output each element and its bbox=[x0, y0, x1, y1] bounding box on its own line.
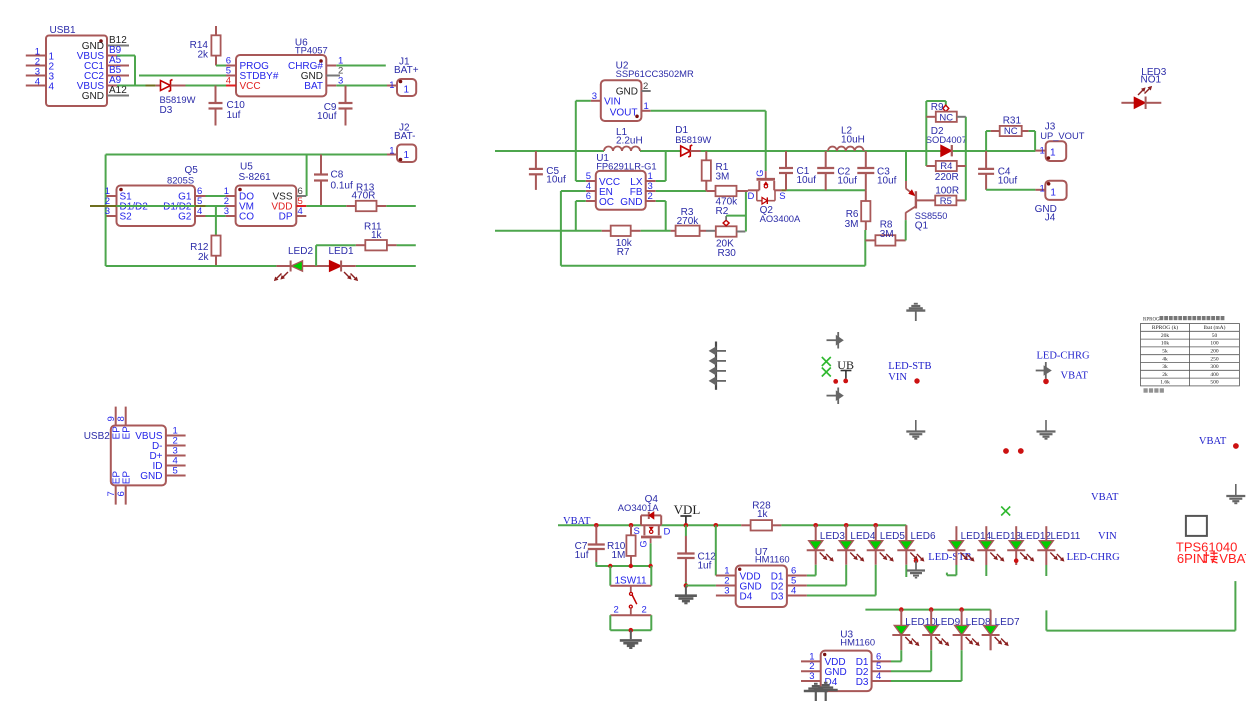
wire R12 branch bbox=[215, 206, 217, 236]
svg-text:GND: GND bbox=[82, 91, 104, 102]
svg-text:VBAT: VBAT bbox=[1061, 370, 1089, 381]
wire VDD row to R13 bbox=[306, 205, 346, 207]
wire CHRG# bbox=[336, 65, 386, 67]
wire R11 out bbox=[397, 244, 416, 246]
svg-text:6PIN: 6PIN bbox=[1177, 551, 1206, 566]
svg-text:3: 3 bbox=[105, 206, 110, 217]
svg-text:4: 4 bbox=[791, 586, 796, 597]
svg-text:10uf: 10uf bbox=[546, 175, 566, 186]
svg-text:LED-STB: LED-STB bbox=[888, 361, 931, 372]
svg-text:6: 6 bbox=[116, 491, 127, 496]
svg-text:G: G bbox=[755, 170, 765, 177]
wire LED7 cathode stub bbox=[990, 635, 992, 650]
LED LED9 bbox=[922, 607, 960, 650]
svg-text:1SW11: 1SW11 bbox=[615, 575, 647, 586]
svg-text:HM1160: HM1160 bbox=[755, 554, 790, 565]
IC U6 TP4057 bbox=[226, 37, 344, 96]
svg-text:3M: 3M bbox=[880, 229, 894, 240]
svg-text:NC: NC bbox=[939, 112, 953, 123]
svg-text:1M: 1M bbox=[612, 550, 626, 561]
svg-text:A12: A12 bbox=[109, 85, 127, 96]
svg-text:4: 4 bbox=[49, 82, 55, 93]
connector J3 UP_VOUT bbox=[1040, 122, 1085, 161]
svg-text:BAT: BAT bbox=[304, 81, 323, 92]
diode D3 B5819W bbox=[156, 80, 196, 117]
LED LED11 bbox=[1037, 526, 1080, 565]
svg-text:1: 1 bbox=[404, 150, 410, 161]
svg-text:DP: DP bbox=[279, 212, 293, 223]
svg-text:CO: CO bbox=[239, 212, 254, 223]
net port arrows (left) column bbox=[709, 342, 726, 390]
resistor R2 470k bbox=[706, 186, 748, 217]
svg-text:S: S bbox=[779, 191, 785, 202]
wire LED junction to R11 bbox=[315, 245, 317, 266]
resistor R30 20K (with wiper) bbox=[706, 216, 745, 259]
svg-text:J4: J4 bbox=[1045, 212, 1056, 223]
svg-text:2: 2 bbox=[642, 605, 647, 616]
svg-text:VBAT: VBAT bbox=[1199, 436, 1227, 447]
svg-text:EP: EP bbox=[122, 471, 133, 485]
svg-text:8: 8 bbox=[116, 416, 127, 421]
wire C4 to J4 bbox=[986, 189, 1045, 191]
svg-text:10uf: 10uf bbox=[998, 176, 1018, 187]
svg-text:R7: R7 bbox=[617, 247, 630, 258]
svg-text:R31: R31 bbox=[1003, 116, 1022, 127]
svg-text:AO3400A: AO3400A bbox=[760, 213, 801, 224]
wire LX up to rail bbox=[656, 151, 666, 181]
connector J4 GND bbox=[1035, 181, 1067, 224]
svg-text:2k: 2k bbox=[198, 252, 210, 263]
svg-text:C8: C8 bbox=[331, 170, 344, 181]
wire BAT- rail bbox=[106, 155, 397, 267]
svg-text:LED11: LED11 bbox=[1051, 531, 1081, 542]
svg-text:4: 4 bbox=[35, 77, 40, 88]
svg-text:200: 200 bbox=[1210, 349, 1219, 355]
svg-text:4: 4 bbox=[298, 206, 303, 217]
svg-text:USB1: USB1 bbox=[50, 25, 77, 36]
wire R13 out bbox=[386, 205, 416, 207]
LED LED4 bbox=[837, 523, 876, 565]
wire OC branch bbox=[576, 201, 586, 231]
svg-text:BAT-: BAT- bbox=[394, 131, 415, 142]
wire D2 bypass branch (right) bbox=[965, 117, 967, 201]
svg-text:LED1: LED1 bbox=[329, 246, 354, 257]
wire VDD branch to U7 bbox=[714, 523, 719, 576]
wire R7 to R3 bbox=[641, 230, 671, 232]
ground (down) right side bbox=[1235, 484, 1237, 495]
svg-text:220R: 220R bbox=[935, 172, 959, 183]
ground (flipped) at U3 left bbox=[814, 683, 818, 685]
resistor R5 100R bbox=[935, 186, 966, 207]
wire output row y=190.4 bbox=[781, 189, 866, 191]
svg-text:Q1: Q1 bbox=[915, 221, 929, 232]
svg-text:R9: R9 bbox=[931, 102, 944, 113]
LED LED8 bbox=[953, 607, 991, 650]
wire bottom rail middle circuit bbox=[561, 230, 865, 266]
svg-text:2: 2 bbox=[614, 605, 619, 616]
diode D2 SOD4007 bbox=[926, 126, 967, 156]
IC U7 HM1160 bbox=[716, 547, 807, 607]
svg-text:2k: 2k bbox=[197, 50, 209, 61]
LED LED6 bbox=[897, 525, 936, 565]
reference table RPROG vs Ibat bbox=[1141, 316, 1240, 393]
svg-text:GND: GND bbox=[140, 471, 162, 482]
resistor R14 2k bbox=[190, 26, 221, 66]
svg-text:1k: 1k bbox=[757, 509, 769, 520]
svg-text:SOD4007: SOD4007 bbox=[926, 134, 967, 145]
wire LED8 cathode to U3 D3 bbox=[891, 650, 962, 681]
svg-text:RPROG (k): RPROG (k) bbox=[1152, 324, 1178, 331]
svg-text:1uf: 1uf bbox=[698, 561, 712, 572]
capacitor C7 1uf bbox=[575, 523, 605, 566]
wire bracket to TPS61040 bbox=[1046, 581, 1235, 631]
IC U3 HM1160 bbox=[801, 630, 891, 691]
wire U7 GND row bbox=[686, 585, 716, 587]
svg-text:D: D bbox=[748, 191, 755, 202]
LED LED14 bbox=[947, 526, 991, 565]
svg-text:NO1: NO1 bbox=[1141, 75, 1162, 86]
capacitor C5 10uf bbox=[529, 151, 566, 190]
svg-text:UB: UB bbox=[837, 358, 854, 372]
svg-text:R30: R30 bbox=[718, 248, 737, 259]
svg-text:LED-CHRG: LED-CHRG bbox=[1037, 351, 1090, 362]
svg-text:D4: D4 bbox=[740, 591, 753, 602]
svg-text:D3: D3 bbox=[771, 591, 784, 602]
capacitor C12 1uf bbox=[677, 525, 716, 588]
net label VBAT (top right) bbox=[1199, 436, 1239, 449]
transistor Q1 SS8550 bbox=[906, 151, 948, 240]
node dots near UB bbox=[833, 379, 848, 384]
connector USB2 bbox=[84, 407, 186, 505]
net port arrow (up) near node VIN bbox=[906, 304, 925, 321]
wire LED11 cathode stub bbox=[1045, 565, 1047, 576]
no-connect X marks bbox=[822, 357, 831, 377]
connector J1 BAT+ bbox=[389, 57, 419, 97]
svg-text:Ibat (mA): Ibat (mA) bbox=[1204, 324, 1226, 331]
LED LED10 bbox=[892, 607, 936, 650]
wire G1 to U5 DO bbox=[206, 195, 226, 197]
svg-text:5: 5 bbox=[173, 466, 178, 477]
svg-text:R5: R5 bbox=[940, 196, 952, 207]
svg-text:TP4057: TP4057 bbox=[295, 44, 328, 55]
wire U1 GND down bbox=[656, 201, 666, 231]
svg-text:S-8261: S-8261 bbox=[239, 172, 272, 183]
transistor Q5 8205S (dual mosfet block) bbox=[105, 165, 206, 226]
svg-text:2k: 2k bbox=[1162, 372, 1168, 378]
resistor R7 10k bbox=[602, 226, 641, 258]
net label VDL bbox=[674, 502, 701, 528]
wire D1/D2 row bbox=[90, 205, 226, 207]
resistor R31 NC bbox=[986, 116, 1035, 152]
svg-text:1.6k: 1.6k bbox=[1160, 380, 1170, 386]
svg-text:3: 3 bbox=[592, 91, 597, 102]
svg-text:VBAT: VBAT bbox=[1091, 492, 1119, 503]
capacitor C4 10uf bbox=[978, 151, 1017, 190]
svg-text:USB2: USB2 bbox=[84, 431, 111, 442]
resistor R6 3M bbox=[845, 190, 871, 230]
wire bottom rail left circuit bbox=[106, 265, 416, 267]
svg-text:HM1160: HM1160 bbox=[840, 637, 875, 648]
resistor R13 470R bbox=[346, 183, 386, 212]
svg-text:D3: D3 bbox=[856, 677, 869, 688]
svg-text:VBAT: VBAT bbox=[1219, 551, 1246, 566]
svg-text:B5819W: B5819W bbox=[675, 134, 711, 145]
wire LED9 cathode to U3 D2 bbox=[891, 650, 931, 671]
no-connect X mark bbox=[1001, 507, 1010, 516]
svg-text:2: 2 bbox=[643, 81, 648, 92]
svg-text:LED-CHRG: LED-CHRG bbox=[1067, 552, 1120, 563]
svg-text:4: 4 bbox=[197, 206, 202, 217]
net label LED-CHRG / VBAT flag bbox=[1036, 351, 1090, 385]
resistor R11 1k bbox=[356, 222, 397, 251]
wire U2 VOUT to Q2 gate bbox=[651, 111, 766, 171]
capacitor C2 10uf bbox=[817, 151, 857, 190]
transistor Q2 AO3400A bbox=[748, 170, 802, 224]
svg-text:NC: NC bbox=[1004, 126, 1018, 137]
svg-text:1uf: 1uf bbox=[575, 550, 589, 561]
wire U2 VIN feed bbox=[576, 101, 591, 181]
wire main VIN rail y=151 bbox=[495, 150, 1035, 152]
wire D2 bypass branch (left) bbox=[926, 101, 946, 166]
resistor R9 NC bbox=[926, 102, 966, 124]
capacitor C1 10uf bbox=[779, 151, 816, 190]
svg-text:100: 100 bbox=[1210, 341, 1219, 347]
wire LED10 cathode to U3 D1 bbox=[891, 650, 901, 661]
svg-text:G2: G2 bbox=[178, 212, 192, 223]
svg-text:UP_VOUT: UP_VOUT bbox=[1040, 130, 1085, 141]
svg-text:OC: OC bbox=[599, 197, 614, 208]
net flag LED-STB with ground bbox=[907, 552, 971, 578]
svg-text:10uf: 10uf bbox=[317, 111, 337, 122]
resistor R1 3M bbox=[702, 151, 730, 191]
wire EN branch bbox=[561, 191, 586, 266]
svg-text:2.2uH: 2.2uH bbox=[616, 136, 643, 147]
LED LED3 bbox=[807, 523, 846, 565]
resistor R4 220R bbox=[926, 161, 966, 183]
node dots pair bbox=[1003, 448, 1024, 454]
svg-text:20k: 20k bbox=[1161, 333, 1170, 339]
svg-text:100R: 100R bbox=[935, 186, 959, 197]
capacitor C8 0.1uf bbox=[314, 155, 353, 207]
capacitor C9 10uf bbox=[317, 86, 352, 126]
svg-text:B5819W: B5819W bbox=[160, 94, 196, 105]
switch 1SW11 bbox=[610, 566, 651, 633]
LED LED2 (green) bbox=[274, 246, 330, 281]
svg-text:400: 400 bbox=[1210, 372, 1219, 378]
svg-text:GND: GND bbox=[620, 197, 642, 208]
IC U2 SSP61CC3502MR bbox=[591, 61, 694, 122]
wire R7 row bbox=[495, 230, 602, 232]
svg-text:50: 50 bbox=[1212, 333, 1218, 339]
svg-text:300: 300 bbox=[1210, 364, 1219, 370]
capacitor C3 10uf bbox=[857, 151, 896, 190]
svg-text:RPROG: RPROG bbox=[1143, 318, 1160, 323]
net labels LED-STB / VIN bbox=[888, 361, 931, 384]
inductor L1 2.2uH bbox=[604, 127, 643, 151]
wire FB row bbox=[656, 190, 707, 192]
svg-text:270k: 270k bbox=[677, 216, 700, 227]
svg-text:SSP61CC3502MR: SSP61CC3502MR bbox=[616, 68, 694, 79]
svg-text:10uf: 10uf bbox=[797, 175, 817, 186]
svg-text:10uf: 10uf bbox=[837, 176, 857, 187]
svg-text:U5: U5 bbox=[240, 162, 253, 173]
svg-text:1: 1 bbox=[644, 101, 649, 112]
svg-text:10uf: 10uf bbox=[877, 176, 897, 187]
wire LED5 cathode to U7 D3 bbox=[807, 565, 876, 596]
connector J2 BAT- bbox=[389, 123, 416, 163]
svg-text:3: 3 bbox=[724, 586, 729, 597]
svg-text:1k: 1k bbox=[371, 230, 383, 241]
svg-text:5k: 5k bbox=[1162, 349, 1168, 355]
wire LED row2 rail bbox=[865, 609, 990, 611]
wire LED13 cathode stub bbox=[985, 565, 987, 576]
ground (down) below VIN flag bbox=[915, 420, 917, 431]
svg-text:VOUT: VOUT bbox=[610, 107, 638, 118]
capacitor C10 1uf bbox=[209, 86, 246, 126]
svg-text:3M: 3M bbox=[845, 219, 859, 230]
inductor L2 10uH bbox=[828, 126, 865, 152]
LED LED7 bbox=[982, 610, 1020, 651]
svg-text:4: 4 bbox=[226, 76, 231, 87]
wire LED4 cathode to U7 D2 bbox=[807, 565, 846, 586]
net port arrow (right) above UB bbox=[827, 332, 844, 349]
transistor Q4 AO3401A bbox=[618, 494, 671, 548]
svg-text:1: 1 bbox=[1050, 188, 1056, 199]
svg-text:3k: 3k bbox=[1162, 364, 1168, 370]
wire to J3 bbox=[1035, 150, 1045, 152]
svg-text:1: 1 bbox=[404, 85, 410, 96]
svg-text:R4: R4 bbox=[940, 161, 952, 172]
svg-text:6: 6 bbox=[586, 191, 591, 202]
svg-text:500: 500 bbox=[1210, 380, 1219, 386]
svg-text:0.1uf: 0.1uf bbox=[331, 181, 353, 192]
svg-text:LED6: LED6 bbox=[911, 531, 936, 542]
svg-text:1uf: 1uf bbox=[227, 110, 241, 121]
wire R30 wiper to drain node bbox=[726, 191, 746, 232]
svg-text:1: 1 bbox=[389, 80, 394, 91]
svg-text:4: 4 bbox=[876, 671, 881, 682]
LED LED13 bbox=[977, 526, 1021, 565]
svg-text:VIN: VIN bbox=[888, 372, 907, 383]
wire G2 to U5 CO bbox=[206, 215, 226, 217]
wire BAT to J1 bbox=[336, 85, 397, 87]
svg-text:VIN: VIN bbox=[1098, 531, 1117, 542]
diode D1 B5819W bbox=[675, 125, 711, 157]
svg-text:VIN: VIN bbox=[604, 97, 621, 108]
net label UB bbox=[837, 358, 854, 379]
node dot below LED12 bbox=[1014, 558, 1019, 563]
wire VBUS from USB1 B9/A9 bbox=[117, 56, 156, 86]
ground (flipped) at U3 right bbox=[824, 682, 828, 684]
wire LED3 cathode to U7 D1 bbox=[807, 565, 816, 576]
wire R14 to U6 PROG bbox=[216, 65, 226, 67]
ground below switch bbox=[630, 630, 632, 639]
LED LED5 bbox=[867, 523, 906, 565]
wire LED14 cathode hook bbox=[947, 565, 957, 575]
svg-text:EP: EP bbox=[122, 426, 133, 440]
IC U5 S-8261 bbox=[224, 162, 307, 227]
svg-text:LED2: LED2 bbox=[288, 246, 313, 257]
wire VCC from D3 to U6 bbox=[186, 85, 227, 87]
svg-text:SS8550: SS8550 bbox=[915, 211, 948, 221]
LED LED1 (red) bbox=[329, 246, 359, 281]
svg-text:AO3401A: AO3401A bbox=[618, 502, 659, 513]
svg-text:1: 1 bbox=[1040, 146, 1045, 157]
svg-text:1: 1 bbox=[1040, 183, 1045, 194]
resistor R28 1k bbox=[741, 501, 781, 531]
resistor R10 1M bbox=[607, 523, 636, 566]
svg-text:3: 3 bbox=[809, 671, 814, 682]
svg-text:1: 1 bbox=[1050, 147, 1056, 158]
ground below C12 bbox=[685, 586, 687, 595]
svg-text:VDL: VDL bbox=[674, 502, 701, 517]
LED LED12 bbox=[1007, 526, 1051, 565]
svg-text:10k: 10k bbox=[1161, 341, 1170, 347]
wire Q4 gate to switch rail bbox=[650, 543, 652, 566]
resistor R3 270k bbox=[671, 207, 706, 236]
svg-text:4k: 4k bbox=[1162, 356, 1168, 362]
net port arrow (right) below UB bbox=[827, 388, 844, 405]
svg-text:470R: 470R bbox=[352, 191, 376, 202]
svg-text:8205S: 8205S bbox=[167, 175, 194, 186]
svg-text:R2: R2 bbox=[716, 206, 729, 217]
svg-text:250: 250 bbox=[1210, 356, 1219, 362]
svg-text:3: 3 bbox=[224, 206, 229, 217]
resistor R12 2k bbox=[190, 236, 220, 267]
svg-text:2: 2 bbox=[648, 191, 653, 202]
svg-text:D: D bbox=[664, 527, 671, 538]
svg-text:LED7: LED7 bbox=[995, 617, 1020, 628]
wire LED6 cathode stub bbox=[905, 565, 907, 577]
IC U1 FP6291LR-G1 bbox=[586, 153, 657, 210]
svg-text:VCC: VCC bbox=[240, 81, 261, 92]
resistor R8 3M bbox=[865, 220, 905, 246]
connector USB1 bbox=[26, 25, 129, 106]
wire VBAT rail bbox=[558, 525, 906, 540]
svg-text:BAT+: BAT+ bbox=[394, 65, 419, 76]
wire switch bottom rail bbox=[596, 564, 653, 568]
svg-text:D3: D3 bbox=[160, 105, 173, 116]
svg-text:S: S bbox=[634, 526, 640, 537]
ground (down) below VBAT flag bbox=[1045, 420, 1047, 431]
pad square TPS61040 bbox=[1186, 516, 1207, 536]
svg-text:S2: S2 bbox=[120, 212, 133, 223]
svg-text:3M: 3M bbox=[716, 172, 730, 183]
wire STDBY# bbox=[139, 75, 226, 77]
svg-text:10uH: 10uH bbox=[841, 135, 865, 146]
svg-text:G: G bbox=[638, 540, 648, 547]
LED LED3 NO1 (top right) bbox=[1121, 67, 1166, 109]
